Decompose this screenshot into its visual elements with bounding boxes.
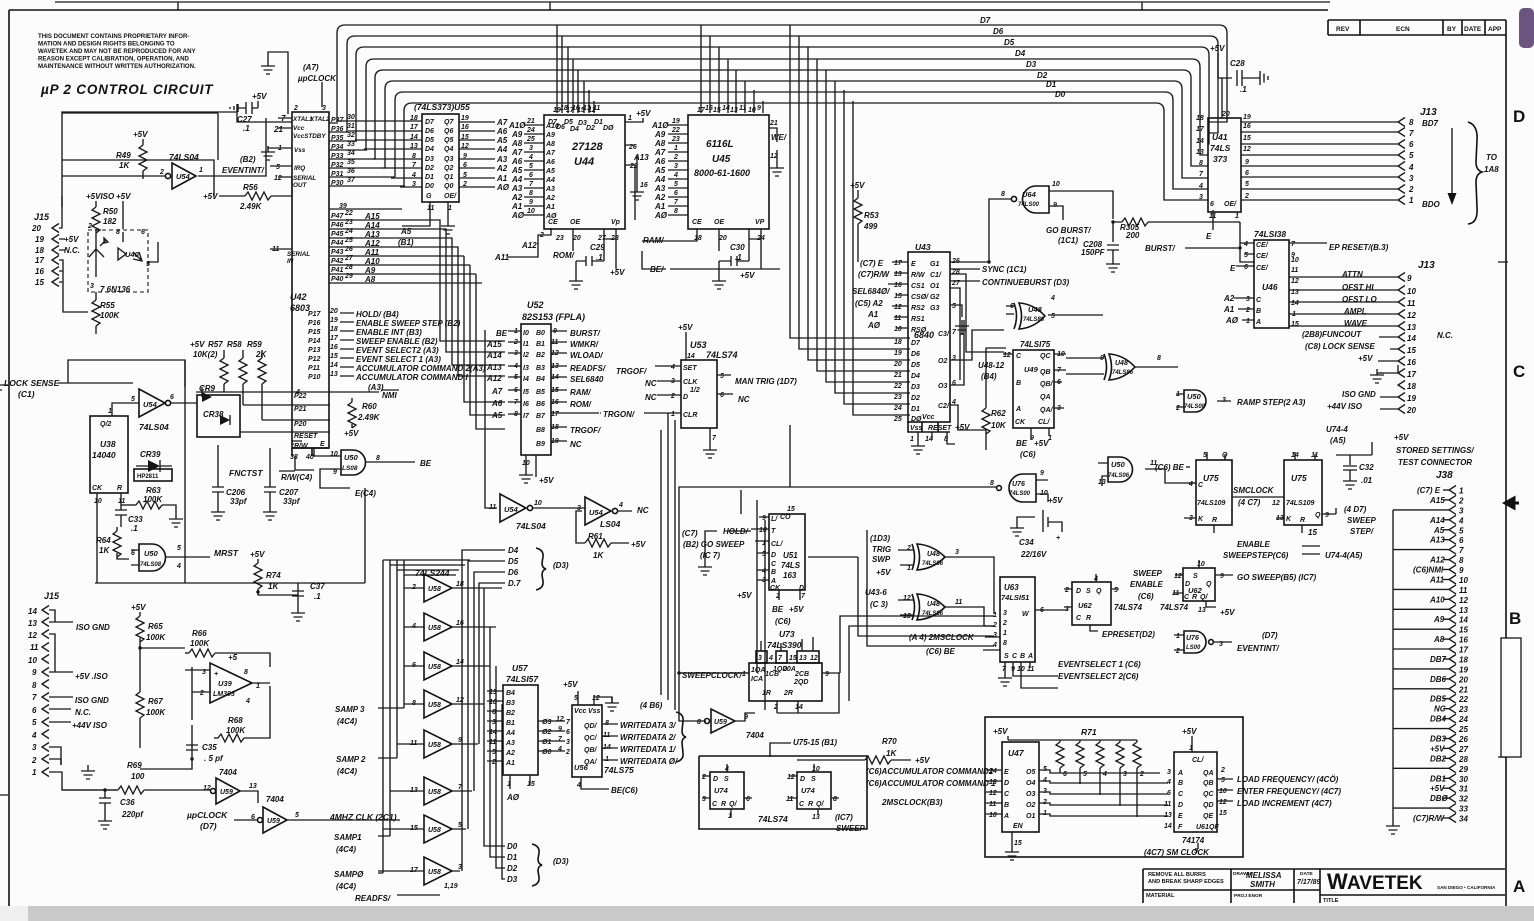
svg-text:A5: A5 [400, 227, 412, 236]
svg-text:ENABLE SWEEP STEP (B2): ENABLE SWEEP STEP (B2) [356, 319, 461, 328]
svg-text:A1: A1 [496, 174, 508, 183]
svg-text:Q/: Q/ [1200, 594, 1208, 601]
svg-text:(C7) E: (C7) E [860, 259, 884, 268]
svg-text:U50: U50 [344, 453, 359, 462]
svg-text:A2: A2 [545, 195, 555, 202]
svg-text:(4C4): (4C4) [336, 845, 356, 854]
svg-text:U48: U48 [1028, 305, 1043, 314]
svg-text:9: 9 [32, 668, 37, 677]
svg-text:6: 6 [1244, 264, 1248, 271]
svg-text:D0: D0 [1055, 90, 1066, 99]
svg-text:U48-12: U48-12 [978, 361, 1005, 370]
svg-text:A: A [1255, 319, 1261, 326]
svg-text:19: 19 [672, 118, 680, 125]
svg-text:QC: QC [1040, 353, 1051, 360]
svg-text:74LS00: 74LS00 [1018, 202, 1040, 208]
svg-text:14: 14 [1459, 616, 1468, 625]
svg-text:G1: G1 [930, 261, 939, 268]
svg-text:19: 19 [330, 317, 338, 324]
svg-text:9: 9 [529, 199, 533, 206]
svg-text:A7: A7 [491, 387, 503, 396]
svg-text:6: 6 [1063, 771, 1067, 778]
svg-text:TRGOF/: TRGOF/ [570, 426, 601, 435]
svg-text:TEST CONNECTOR: TEST CONNECTOR [1398, 458, 1472, 467]
svg-text:D1: D1 [594, 119, 603, 126]
svg-text:C1/: C1/ [930, 272, 942, 279]
svg-text:A2: A2 [496, 164, 508, 173]
svg-text:74LS06: 74LS06 [1108, 473, 1130, 479]
svg-text:U73: U73 [779, 629, 795, 639]
svg-text:ENABLE: ENABLE [1237, 540, 1271, 549]
svg-text:B3: B3 [506, 700, 515, 707]
svg-text:A: A [1003, 813, 1009, 820]
svg-text:12: 12 [1459, 596, 1468, 605]
svg-text:2: 2 [1002, 620, 1007, 627]
svg-text:A3: A3 [496, 155, 508, 164]
svg-text:16: 16 [461, 124, 469, 131]
svg-text:8: 8 [674, 208, 678, 215]
svg-text:A7: A7 [511, 148, 523, 157]
svg-text:163: 163 [783, 571, 797, 580]
svg-text:74LSI38: 74LSI38 [1254, 229, 1286, 239]
svg-text:11: 11 [786, 796, 793, 803]
svg-text:(A7): (A7) [303, 63, 319, 72]
svg-text:RESET: RESET [928, 425, 952, 432]
svg-text:8: 8 [1409, 118, 1414, 127]
svg-text:I5: I5 [523, 389, 529, 396]
svg-text:3: 3 [529, 145, 533, 152]
svg-text:ROM/: ROM/ [553, 251, 575, 260]
svg-text:6: 6 [952, 380, 956, 387]
svg-text:17: 17 [330, 335, 339, 342]
svg-text:6: 6 [529, 172, 533, 179]
svg-text:SAMP 3: SAMP 3 [335, 705, 365, 714]
svg-text:A15: A15 [1429, 496, 1445, 505]
svg-text:A8: A8 [545, 141, 555, 148]
svg-text:+5V: +5V [203, 192, 218, 201]
svg-text:29: 29 [1458, 765, 1468, 774]
svg-text:D5: D5 [425, 137, 434, 144]
svg-text:9: 9 [1459, 566, 1464, 575]
svg-text:(D3): (D3) [553, 561, 569, 570]
svg-text:1K: 1K [886, 749, 897, 758]
svg-text:A9: A9 [511, 130, 523, 139]
svg-text:8: 8 [116, 229, 120, 236]
svg-text:13: 13 [730, 107, 738, 114]
svg-text:100: 100 [131, 772, 145, 781]
svg-text:WAVETEK AND MAY NOT BE REPRODU: WAVETEK AND MAY NOT BE REPRODUCED FOR AN… [38, 48, 196, 55]
svg-text:1: 1 [32, 768, 37, 777]
svg-text:U58: U58 [428, 664, 441, 671]
svg-text:20: 20 [329, 308, 338, 315]
svg-text:ACCUMULATOR COMMAND 2(A3): ACCUMULATOR COMMAND 2(A3) [355, 364, 486, 373]
svg-text:14: 14 [795, 704, 803, 711]
svg-text:11: 11 [1407, 299, 1416, 308]
svg-text:74LS08: 74LS08 [1184, 404, 1206, 410]
svg-text:2K: 2K [255, 350, 267, 359]
svg-text:(B2) GO SWEEP: (B2) GO SWEEP [683, 540, 745, 549]
svg-text:38: 38 [290, 454, 298, 461]
svg-text:VP: VP [755, 219, 765, 226]
svg-text:2: 2 [491, 759, 496, 766]
svg-text:17: 17 [410, 124, 419, 131]
svg-text:3: 3 [674, 163, 678, 170]
svg-text:+5V: +5V [1430, 784, 1445, 793]
svg-text:U43-6: U43-6 [865, 588, 887, 597]
svg-text:G3: G3 [930, 305, 939, 312]
svg-text:U48: U48 [927, 601, 940, 608]
svg-text:3: 3 [1246, 296, 1250, 303]
svg-text:(2B8)FUNCOUT: (2B8)FUNCOUT [1302, 330, 1362, 339]
svg-text:EP RESET/(B.3): EP RESET/(B.3) [1329, 243, 1389, 252]
svg-text:17: 17 [1407, 370, 1416, 379]
svg-text:6: 6 [566, 729, 570, 736]
svg-text:A1: A1 [1223, 305, 1235, 314]
svg-text:SET: SET [683, 365, 697, 372]
svg-text:WRITEDATA 2/: WRITEDATA 2/ [620, 733, 676, 742]
svg-text:C: C [1012, 653, 1018, 660]
svg-text:HOLD/ (B4): HOLD/ (B4) [356, 310, 399, 319]
svg-text:HP2811: HP2811 [137, 474, 159, 480]
svg-text:+5V: +5V [116, 192, 131, 201]
svg-text:18: 18 [35, 246, 44, 255]
svg-text:(C7)R/W: (C7)R/W [1413, 814, 1446, 823]
svg-text:27128: 27128 [571, 141, 603, 153]
svg-text:A6: A6 [545, 159, 555, 166]
svg-text:Q: Q [1096, 588, 1102, 595]
svg-text:22: 22 [344, 210, 353, 217]
svg-text:20: 20 [1458, 675, 1468, 684]
svg-text:7 6N136: 7 6N136 [100, 285, 131, 294]
svg-text:21: 21 [1458, 685, 1468, 694]
svg-text:5: 5 [295, 812, 299, 819]
svg-text:U54: U54 [176, 172, 191, 181]
svg-text:3: 3 [90, 283, 94, 290]
svg-text:SAN DIEGO • CALIFORNIA: SAN DIEGO • CALIFORNIA [1437, 885, 1496, 890]
svg-text:21: 21 [273, 125, 283, 134]
svg-text:5: 5 [492, 749, 496, 756]
svg-text:D3: D3 [911, 384, 920, 391]
svg-text:B: B [1004, 802, 1009, 809]
svg-text:RS2: RS2 [911, 305, 925, 312]
svg-text:R/W: R/W [294, 443, 309, 450]
svg-text:R58: R58 [227, 340, 242, 349]
svg-text:D: D [1004, 780, 1009, 787]
svg-text:BE: BE [420, 459, 432, 468]
svg-text:C: C [1004, 791, 1010, 798]
svg-text:11: 11 [989, 801, 996, 808]
svg-text:A4: A4 [545, 177, 555, 184]
svg-text:+5V: +5V [915, 756, 930, 765]
svg-text:R69: R69 [127, 761, 142, 770]
svg-text:21: 21 [526, 118, 535, 125]
svg-text:P11: P11 [308, 365, 320, 372]
svg-text:O2: O2 [938, 358, 947, 365]
svg-text:18: 18 [1459, 656, 1468, 665]
svg-text:Q4: Q4 [444, 146, 453, 153]
svg-text:D: D [1513, 107, 1525, 126]
svg-text:AØ: AØ [496, 183, 510, 192]
svg-text:3: 3 [322, 105, 326, 112]
svg-text:74LS109: 74LS109 [1286, 500, 1315, 507]
svg-text:26: 26 [951, 258, 960, 265]
svg-text:RAM/: RAM/ [570, 388, 591, 397]
svg-text:D: D [1178, 802, 1183, 809]
svg-text:B3: B3 [536, 365, 545, 372]
svg-text:13: 13 [1407, 323, 1416, 332]
svg-text:U49: U49 [1024, 365, 1039, 374]
svg-text:1: 1 [671, 411, 675, 418]
svg-text:CSØ/: CSØ/ [911, 294, 929, 301]
svg-text:L/: L/ [771, 516, 778, 523]
svg-text:REASON EXCEPT CALIBRATION, OPE: REASON EXCEPT CALIBRATION, OPERATION, AN… [38, 56, 189, 63]
svg-text:2: 2 [673, 154, 678, 161]
svg-text:ACCUMULATOR COMMAND I: ACCUMULATOR COMMAND I [355, 373, 468, 382]
svg-text:74LS390: 74LS390 [767, 640, 802, 650]
svg-text:TO: TO [1486, 153, 1498, 162]
svg-text:D4: D4 [570, 126, 579, 133]
svg-text:74LS74: 74LS74 [1114, 603, 1143, 612]
svg-text:1K: 1K [99, 546, 110, 555]
svg-text:(C5) A2: (C5) A2 [855, 299, 883, 308]
svg-text:R60: R60 [362, 402, 377, 411]
svg-text:B: B [1509, 609, 1521, 628]
svg-text:U74-4: U74-4 [1326, 425, 1348, 434]
svg-text:J13: J13 [1420, 107, 1437, 118]
svg-text:17: 17 [1459, 646, 1468, 655]
svg-text:O2: O2 [1026, 802, 1035, 809]
svg-text:B1: B1 [536, 341, 545, 348]
svg-text:8: 8 [32, 681, 37, 690]
svg-text:WMKR/: WMKR/ [570, 340, 599, 349]
svg-text:AØ: AØ [1225, 316, 1239, 325]
svg-text:QA: QA [1203, 770, 1214, 777]
svg-text:28: 28 [951, 269, 960, 276]
svg-text:U58: U58 [428, 869, 441, 876]
svg-text:1: 1 [907, 565, 911, 572]
svg-text:23: 23 [555, 235, 564, 242]
svg-text:CONTINUEBURST (D3): CONTINUEBURST (D3) [982, 278, 1069, 287]
svg-text:3: 3 [758, 655, 762, 662]
svg-text:U48: U48 [927, 551, 940, 558]
svg-text:+5V: +5V [636, 109, 651, 118]
svg-text:+5V: +5V [610, 268, 625, 277]
svg-text:U59: U59 [220, 789, 233, 796]
svg-text:B4: B4 [506, 690, 515, 697]
svg-text:20A: 20A [782, 666, 796, 673]
svg-text:ECN: ECN [1396, 26, 1410, 33]
svg-text:U38: U38 [100, 439, 116, 449]
svg-text:1: 1 [108, 408, 112, 415]
svg-text:10: 10 [489, 699, 497, 706]
svg-text:13: 13 [799, 655, 807, 662]
svg-text:2: 2 [1220, 767, 1225, 774]
svg-text:R/W: R/W [911, 272, 926, 279]
svg-text:CE/: CE/ [1256, 242, 1269, 249]
svg-text:9: 9 [762, 515, 766, 522]
svg-text:U47: U47 [1008, 748, 1025, 758]
svg-text:(A5): (A5) [1330, 436, 1346, 445]
svg-text:STEP/: STEP/ [1350, 527, 1374, 536]
svg-text:OE: OE [714, 219, 724, 226]
svg-text:C30: C30 [730, 243, 745, 252]
svg-text:Q7: Q7 [444, 119, 454, 126]
svg-text:SEL6840: SEL6840 [570, 375, 604, 384]
svg-text:4: 4 [1243, 241, 1248, 248]
svg-text:1: 1 [742, 671, 746, 678]
svg-text:U58: U58 [428, 789, 441, 796]
svg-text:CL/: CL/ [1038, 419, 1050, 426]
svg-text:499: 499 [863, 222, 878, 231]
svg-text:A4: A4 [496, 145, 508, 154]
svg-text:A12: A12 [1429, 556, 1445, 565]
svg-text:2: 2 [31, 756, 37, 765]
svg-text:7: 7 [712, 435, 717, 442]
svg-text:U75: U75 [1291, 473, 1307, 483]
svg-text:µpCLOCK: µpCLOCK [186, 810, 228, 820]
svg-text:+5V .ISO: +5V .ISO [75, 672, 108, 681]
svg-text:9: 9 [757, 105, 761, 112]
svg-text:2: 2 [1245, 307, 1250, 314]
svg-text:1: 1 [910, 436, 914, 443]
svg-text:Q/: Q/ [729, 801, 737, 808]
svg-text:AØ: AØ [511, 211, 525, 220]
svg-text:5: 5 [529, 163, 533, 170]
svg-text:6: 6 [492, 709, 496, 716]
svg-text:P16: P16 [308, 320, 321, 327]
svg-text:SMITH: SMITH [1250, 880, 1275, 889]
svg-text:A8: A8 [511, 139, 523, 148]
svg-text:74LSI51: 74LSI51 [1001, 593, 1029, 602]
svg-text:3: 3 [702, 796, 706, 803]
svg-text:1,19: 1,19 [444, 883, 458, 890]
svg-text:MATERIAL: MATERIAL [1146, 893, 1175, 899]
svg-text:O5: O5 [1026, 769, 1035, 776]
svg-text:7: 7 [558, 736, 563, 743]
svg-text:74LS: 74LS [1210, 143, 1231, 153]
svg-text:A9: A9 [545, 132, 555, 139]
svg-text:18: 18 [456, 581, 464, 588]
svg-text:THIS DOCUMENT CONTAINS PROPRIE: THIS DOCUMENT CONTAINS PROPRIETARY INFOR… [38, 33, 189, 40]
svg-text:8: 8 [244, 669, 248, 676]
svg-text:74LS74: 74LS74 [758, 814, 788, 824]
svg-text:13: 13 [903, 613, 911, 620]
svg-text:R68: R68 [228, 716, 243, 725]
svg-text:QE: QE [1203, 813, 1213, 820]
svg-text:7: 7 [674, 199, 679, 206]
svg-text:A8: A8 [654, 139, 666, 148]
svg-text:A3: A3 [654, 184, 666, 193]
svg-text:100K: 100K [100, 311, 120, 320]
svg-text:31: 31 [1459, 785, 1468, 794]
svg-text:Vp: Vp [611, 219, 621, 226]
svg-text:.1: .1 [1240, 85, 1247, 94]
svg-text:(4 B6): (4 B6) [640, 701, 663, 710]
svg-text:A1Ø: A1Ø [508, 121, 526, 130]
svg-text:U74: U74 [801, 786, 816, 795]
svg-text:BE: BE [1016, 439, 1028, 448]
svg-text:CL/: CL/ [1192, 757, 1204, 764]
svg-text:3: 3 [32, 743, 37, 752]
svg-text:11: 11 [593, 105, 600, 112]
svg-text:5: 5 [1409, 151, 1414, 160]
svg-text:33: 33 [347, 141, 355, 148]
svg-text:C: C [1178, 791, 1184, 798]
svg-text:+44V ISO: +44V ISO [72, 721, 108, 730]
svg-text:2: 2 [701, 774, 706, 781]
svg-text:BE: BE [772, 605, 784, 614]
svg-text:ISO GND: ISO GND [75, 696, 109, 705]
svg-text:373: 373 [1213, 154, 1227, 164]
svg-text:9: 9 [1040, 470, 1044, 477]
svg-text:5: 5 [276, 164, 280, 171]
svg-text:8: 8 [376, 455, 380, 462]
svg-text:B4: B4 [536, 376, 545, 383]
svg-text:Vcc: Vcc [922, 414, 935, 421]
svg-text:QC: QC [1203, 791, 1214, 798]
svg-text:2: 2 [906, 545, 911, 552]
svg-text:CE: CE [692, 219, 702, 226]
svg-text:8: 8 [697, 719, 701, 726]
svg-text:19: 19 [1243, 114, 1251, 121]
svg-text:1A8: 1A8 [1484, 165, 1499, 174]
svg-text:C: C [799, 801, 805, 808]
svg-text:4: 4 [1102, 771, 1107, 778]
svg-text:4: 4 [31, 731, 37, 740]
svg-text:14: 14 [687, 353, 695, 360]
svg-text:CE: CE [548, 219, 558, 226]
svg-text:. 5 pf: . 5 pf [204, 754, 224, 763]
svg-text:13: 13 [1164, 812, 1172, 819]
svg-text:14: 14 [722, 105, 730, 112]
svg-text:+5V: +5V [737, 591, 752, 600]
svg-text:30: 30 [347, 114, 355, 121]
svg-text:CLK: CLK [683, 379, 698, 386]
svg-text:+5V: +5V [252, 92, 267, 101]
svg-text:Ø0: Ø0 [542, 749, 551, 756]
svg-text:U54: U54 [589, 508, 604, 517]
svg-text:(4C4): (4C4) [336, 882, 356, 891]
svg-text:4: 4 [1050, 295, 1055, 302]
svg-text:WE/: WE/ [771, 133, 787, 142]
svg-text:74LS08: 74LS08 [140, 562, 162, 568]
svg-text:A3: A3 [511, 184, 523, 193]
svg-text:21: 21 [769, 120, 778, 127]
svg-text:U51: U51 [783, 551, 798, 560]
svg-text:(4 C7): (4 C7) [1238, 498, 1261, 507]
svg-text:A11: A11 [1429, 576, 1445, 585]
svg-text:2: 2 [293, 105, 298, 112]
svg-text:Q: Q [1315, 512, 1321, 519]
svg-text:U50: U50 [1187, 392, 1202, 401]
svg-text:QB: QB [1040, 369, 1051, 376]
svg-text:200: 200 [1125, 231, 1140, 240]
svg-text:P40: P40 [331, 276, 344, 283]
svg-text:15: 15 [713, 107, 721, 114]
svg-text:10: 10 [894, 326, 902, 333]
svg-text:NC: NC [570, 440, 582, 449]
svg-text:16: 16 [1243, 123, 1251, 130]
svg-text:QF: QF [1209, 824, 1219, 831]
svg-text:12: 12 [1003, 352, 1011, 359]
svg-text:(C6)ACCUMULATOR COMMAND2: (C6)ACCUMULATOR COMMAND2 [866, 767, 994, 776]
svg-text:E: E [320, 441, 325, 448]
svg-text:AØ: AØ [867, 321, 881, 330]
svg-text:13: 13 [812, 814, 820, 821]
svg-text:R57: R57 [208, 340, 223, 349]
svg-text:8: 8 [1199, 160, 1203, 167]
svg-text:+5V: +5V [678, 323, 693, 332]
